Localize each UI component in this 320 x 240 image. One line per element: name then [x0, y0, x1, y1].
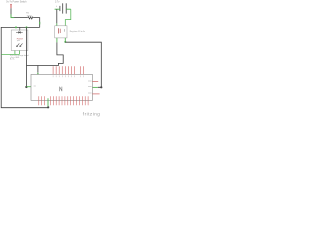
svg-text:PC817: PC817: [17, 38, 24, 40]
svg-text:B+ B-: B+ B-: [10, 59, 15, 61]
svg-text:5v-7v Power Switch: 5v-7v Power Switch: [6, 0, 27, 3]
svg-text:Reg item C3 to 5v: Reg item C3 to 5v: [70, 30, 85, 33]
svg-text:fritzing: fritzing: [83, 112, 101, 117]
